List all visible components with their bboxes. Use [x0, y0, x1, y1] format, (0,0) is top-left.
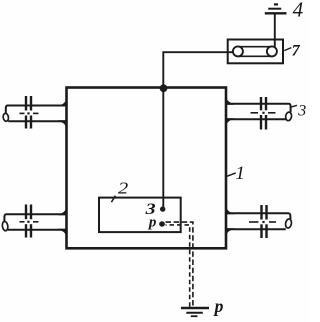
svg-text:7: 7 [292, 43, 301, 60]
svg-text:1: 1 [235, 163, 245, 184]
svg-text:p: p [213, 296, 224, 316]
svg-text:2: 2 [118, 179, 128, 198]
svg-text:3: 3 [297, 103, 306, 120]
svg-text:4: 4 [293, 0, 304, 21]
svg-text:p: p [147, 214, 157, 230]
